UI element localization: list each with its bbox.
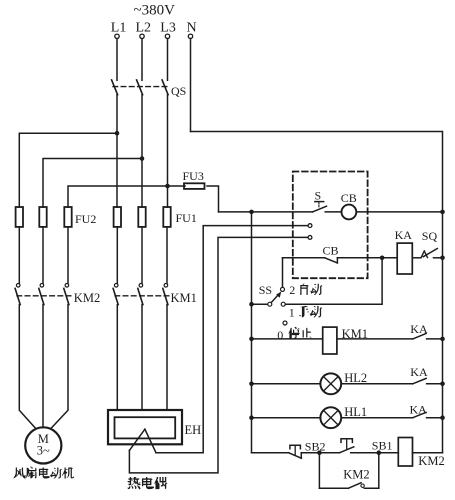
wire — [166, 227, 168, 283]
wire KA to rail 3 — [427, 417, 443, 419]
svg-text:3~: 3~ — [37, 444, 50, 458]
node L2 branch — [140, 156, 145, 161]
thermocouple wire A — [156, 226, 308, 453]
CB operating coil circle — [342, 205, 357, 220]
svg-text:~380V: ~380V — [134, 3, 176, 19]
wire pos1 to junction — [285, 258, 382, 304]
label thermocouple (Chinese) — [127, 477, 141, 489]
fuse FU1 c — [163, 207, 170, 227]
svg-text:KM2: KM2 — [74, 291, 100, 305]
SS position 0 — [283, 321, 287, 325]
node latch right — [377, 450, 382, 455]
selector SS pivot — [268, 302, 272, 306]
wire heater phase 2 — [141, 305, 143, 410]
wire heater phase 1 — [116, 305, 118, 410]
node N rail HL1 row — [440, 415, 445, 420]
svg-text:SQ: SQ — [422, 229, 438, 243]
switch QS pole 2 — [137, 80, 143, 95]
contactor KM2 pole 1 — [16, 284, 20, 288]
contactor KM2 pole 2 — [40, 284, 44, 288]
fuse FU2 a — [16, 207, 23, 227]
svg-text:SB1: SB1 — [372, 438, 393, 452]
wire HL1 to KA — [341, 417, 413, 419]
node L3 branch — [165, 184, 170, 189]
svg-text:CB: CB — [323, 243, 339, 257]
KM2 linkage dashed — [17, 295, 71, 297]
node rail top — [249, 210, 254, 215]
contact KM2 aux — [319, 487, 348, 489]
contactor coil KM1 — [323, 327, 337, 354]
wire SB2 to SB1 — [301, 452, 339, 454]
node L1 branch — [115, 131, 120, 136]
svg-text:S: S — [315, 189, 322, 203]
svg-text:KA: KA — [410, 403, 428, 417]
fuse FU3 — [184, 183, 205, 189]
lamp HL1 — [320, 407, 341, 428]
wire N down — [190, 39, 192, 132]
svg-text:KM1: KM1 — [171, 291, 197, 305]
node rail HL2 row — [249, 382, 254, 387]
contact CB — [283, 257, 325, 259]
contactor coil KM2 — [398, 438, 412, 467]
KM1 linkage dashed — [115, 295, 170, 297]
svg-text:KA: KA — [410, 322, 428, 336]
wire KM2 coil to rail — [413, 452, 443, 454]
wire L1 top — [116, 39, 118, 81]
switch QS pole 1 — [112, 80, 118, 95]
svg-text:QS: QS — [171, 84, 186, 98]
contactor KM1 pole 3 — [164, 284, 168, 288]
wire rail to KM1 coil — [252, 338, 323, 340]
thermocouple V junction — [129, 429, 145, 450]
wire rail to SS — [252, 303, 268, 305]
svg-text:KM2: KM2 — [343, 467, 369, 481]
node N rail top — [440, 210, 445, 215]
wire branch 2 — [43, 159, 142, 208]
node rail SS — [249, 302, 254, 307]
fuse FU2 b — [39, 207, 46, 227]
CB input terminal A — [308, 224, 312, 228]
svg-text:HL2: HL2 — [344, 371, 367, 385]
wire CB contact to KA — [337, 257, 397, 259]
svg-text:0: 0 — [277, 328, 283, 342]
CB input terminal B — [308, 236, 312, 240]
wire heater phase 3 — [166, 305, 168, 410]
wire from SS pos2 up — [282, 258, 284, 288]
svg-text:L2: L2 — [136, 21, 152, 36]
controller CB dashed box — [293, 172, 368, 279]
wire rail to SB2 — [252, 452, 289, 454]
switch S — [313, 206, 327, 212]
wire motor phase 1 — [19, 305, 36, 429]
svg-text:SS: SS — [259, 283, 272, 297]
switch QS pole 3 — [162, 80, 168, 95]
wire to FU3 — [168, 185, 186, 187]
heater EH inner box — [115, 417, 176, 438]
contactor KM2 pole 3 — [65, 284, 69, 288]
thermocouple wire B — [129, 237, 308, 473]
wire L2 to FU1 — [141, 95, 143, 208]
contact KA row3 — [413, 412, 426, 417]
wire latch left — [318, 453, 320, 489]
pushbutton SB1 (NO) — [340, 447, 354, 453]
contact KA row2 — [413, 378, 426, 383]
svg-text:FU2: FU2 — [75, 212, 96, 226]
svg-text:KA: KA — [410, 365, 428, 379]
relay coil KA — [397, 243, 412, 274]
wire S to CB — [325, 211, 341, 213]
wire — [42, 227, 44, 283]
wire L3 to FU1 — [167, 95, 169, 208]
node manual junction — [380, 255, 385, 260]
wire SB1 to KM2 coil — [351, 452, 399, 454]
wire L2 top — [141, 39, 143, 81]
svg-text:2: 2 — [289, 283, 295, 297]
wire CB to N rail — [356, 211, 442, 213]
svg-text:KA: KA — [395, 228, 413, 242]
SS position 2 — [281, 287, 285, 291]
wire — [141, 227, 143, 283]
motor M circle — [25, 427, 61, 463]
wire KA to rail — [427, 338, 443, 340]
svg-text:KM2: KM2 — [418, 454, 444, 468]
node rail KM1 row — [249, 337, 254, 342]
wire control feed — [219, 211, 313, 213]
wire — [67, 227, 69, 283]
wire HL2 to KA — [341, 383, 413, 385]
svg-text:FU1: FU1 — [176, 211, 197, 225]
svg-text:L1: L1 — [111, 21, 127, 36]
contact KA row1 — [413, 334, 426, 339]
node N rail SQ — [440, 255, 445, 260]
wire — [116, 227, 118, 283]
node latch left — [317, 450, 322, 455]
QS linkage dashed — [113, 86, 168, 88]
wire motor phase 2 — [42, 305, 44, 428]
label fan motor (Chinese) — [13, 468, 25, 479]
wire L1 to FU1 — [116, 95, 118, 208]
wire left rail — [251, 212, 253, 453]
limit switch SQ — [412, 257, 421, 259]
lamp HL2 — [320, 373, 341, 394]
wire KA to rail 2 — [427, 383, 443, 385]
node rail HL1 row — [249, 415, 254, 420]
fuse FU2 c — [64, 207, 71, 227]
svg-text:N: N — [187, 21, 197, 36]
svg-text:CB: CB — [341, 191, 357, 205]
svg-text:EH: EH — [185, 423, 202, 437]
contactor KM1 pole 2 — [139, 284, 143, 288]
wire FU3 out — [207, 186, 219, 212]
fuse FU1 b — [138, 207, 145, 227]
node N rail KM1 row — [440, 337, 445, 342]
wire KM1 to KA contact — [337, 338, 413, 340]
SS position 1 — [281, 302, 285, 306]
wire N rail — [191, 132, 443, 453]
heater EH outer box — [108, 410, 182, 444]
wire motor phase 3 — [51, 305, 68, 429]
wire — [18, 227, 20, 283]
pushbutton SB2 (NC) — [289, 453, 302, 459]
wire rail to HL1 — [252, 417, 321, 419]
wire L3 top — [167, 39, 169, 81]
wire latch right — [378, 453, 380, 489]
svg-text:HL1: HL1 — [344, 405, 367, 419]
SS arrow to pos 2 — [271, 295, 278, 303]
svg-text:SB2: SB2 — [305, 439, 326, 453]
svg-text:1: 1 — [289, 306, 295, 320]
wire branch 1 — [19, 133, 117, 207]
fuse FU1 a — [114, 207, 121, 227]
svg-text:L3: L3 — [160, 21, 176, 36]
contactor KM1 pole 1 — [114, 284, 118, 288]
node N rail HL2 row — [440, 382, 445, 387]
wire branch 3 — [68, 186, 168, 207]
wire rail to HL2 — [252, 383, 321, 385]
svg-text:FU3: FU3 — [183, 169, 204, 183]
